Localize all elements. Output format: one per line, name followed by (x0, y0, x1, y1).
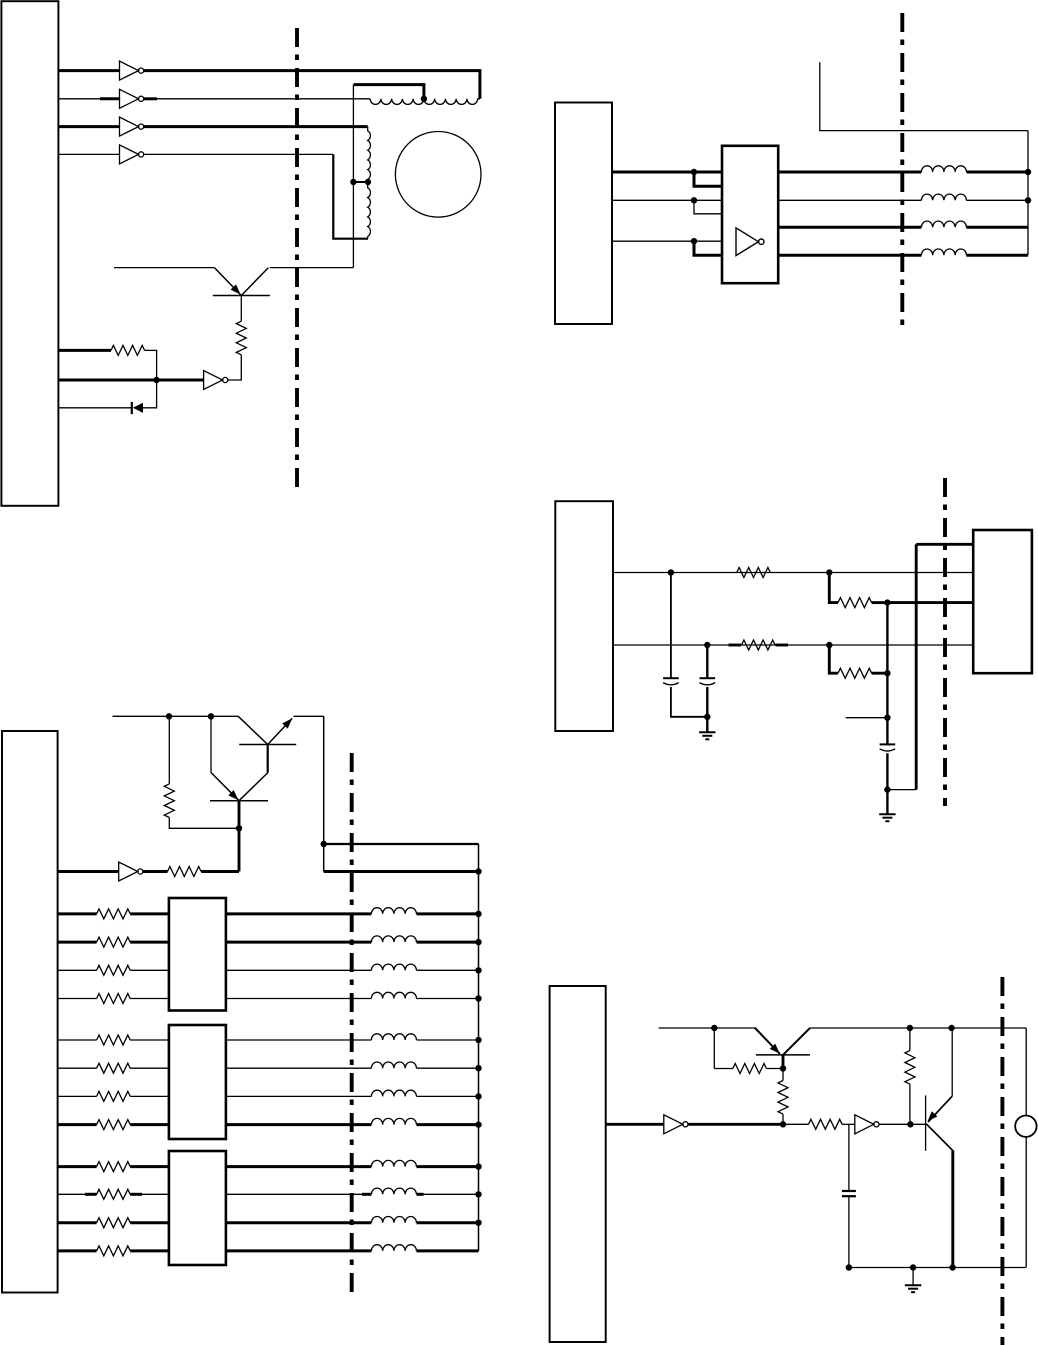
wire right bus vertical (1027, 131, 1029, 256)
resistor R6 (838, 668, 872, 678)
wire emitter bus vertical (323, 716, 325, 871)
inductor L11 (371, 964, 416, 970)
wire driver out row 10 (226, 1193, 372, 1195)
inverter A2 (120, 89, 139, 108)
inverter A4 (120, 145, 139, 164)
wire U3 out 4 to L8 (778, 254, 921, 257)
node ground junction right (884, 786, 890, 792)
wire driver out row 12 (226, 1249, 372, 1252)
driver IC U8 (169, 1025, 226, 1139)
resistor R18 (809, 1119, 843, 1129)
wire Q5 collector to bottom rail (951, 1151, 954, 1268)
inverter A7 (664, 1115, 683, 1134)
node R6 junction (884, 670, 890, 676)
wire U4 line 1 (613, 572, 973, 574)
resistor R7 (164, 784, 174, 818)
node bus row 10 (475, 1191, 481, 1197)
transistor Q3 emitter arrow (228, 790, 241, 803)
wire U6 to R10 row 2 (58, 941, 97, 944)
wire U6 to R14 row 6 (58, 1067, 97, 1069)
resistor R15 (733, 1064, 767, 1074)
resistor R16 (778, 1081, 788, 1115)
wire L16 to bus (417, 1123, 479, 1126)
transistor Q4 base bar (756, 1054, 810, 1056)
wire junction to R18 (783, 1123, 809, 1125)
resistor R1 (111, 345, 145, 355)
node coil tap L3-L4 (365, 179, 371, 185)
wire thick segment on A2 input (100, 97, 120, 100)
wire U4 line 2 (613, 644, 973, 646)
node Q5 base junction (907, 1121, 913, 1127)
wire U1 to diode D1 (59, 407, 132, 409)
wire D1 to junction (143, 380, 157, 408)
wire U3 out 2 to L6 (778, 199, 921, 201)
wire line 2 stub to U3 (694, 200, 722, 214)
inductor L6 (921, 194, 966, 200)
ground symbol right (879, 813, 895, 815)
node line 1 branch (691, 169, 697, 175)
node bus row 6 (475, 1065, 481, 1071)
driver IC U3 (722, 146, 778, 283)
node R3 output junction (826, 569, 832, 575)
wire coil tap link (353, 181, 368, 183)
wire U10 to A7 input (606, 1123, 664, 1126)
wire Q2 base to Q3 collector (267, 745, 269, 773)
node bus line 1 (1025, 169, 1031, 175)
resistor R15 (97, 1091, 131, 1101)
IC block U4 (555, 501, 613, 731)
transistor Q3 emitter diagonal (211, 773, 239, 801)
node Q4 base junction (780, 1065, 786, 1071)
transistor Q5 emitter diagonal (928, 1096, 952, 1122)
wire R4 node to U5 (887, 601, 973, 604)
wire R4 to node (872, 601, 888, 604)
resistor R17 (97, 1162, 131, 1172)
wire R10 to driver row 2 (130, 941, 169, 944)
wire U6 to R16 row 8 (58, 1123, 97, 1126)
motor M1 (circle) (395, 132, 481, 218)
wire driver out row 2 (226, 941, 372, 944)
transistor Q5 emitter arrow (925, 1111, 938, 1124)
inductor L7 (921, 221, 966, 227)
wire C3 to ground node (886, 753, 888, 789)
wire U6 to R11 row 3 (58, 969, 97, 971)
wire R17 to driver row 9 (130, 1165, 169, 1168)
inverter symbol in U3 (736, 228, 758, 256)
wire Q1 base down (240, 296, 242, 322)
node coil tap on common line (350, 179, 356, 185)
wire base junction to inverter line (238, 828, 241, 871)
resistor R9 (97, 909, 131, 919)
wire supply feed to bus (820, 62, 1028, 130)
node line 3 branch (691, 238, 697, 244)
wire L19 to bus (417, 1221, 479, 1224)
wire node to return vertical (887, 789, 916, 791)
node rail R15 tap (711, 1025, 717, 1031)
transistor Q5 base bar (925, 1095, 927, 1150)
wire R6 to node (872, 672, 888, 675)
wire U6 to R19 row 11 (58, 1221, 97, 1224)
wire U6 to R13 row 5 (58, 1039, 97, 1041)
wire C2 to ground node (706, 687, 708, 717)
resistor R14 (97, 1063, 131, 1073)
wire transistor Q1 collector stub (114, 267, 214, 269)
resistor R8 (168, 867, 202, 877)
wire C3 vertical (886, 603, 888, 745)
resistor R10 (97, 937, 131, 947)
node bus row 1 (475, 911, 481, 917)
resistor R11 (97, 965, 131, 975)
ground symbol left (699, 731, 715, 733)
node R4 junction (884, 599, 890, 605)
wire C4 top lead (848, 1124, 850, 1191)
wire Q4 base down (782, 1055, 785, 1069)
node bus row 7 (475, 1093, 481, 1099)
inverter A1 (120, 61, 139, 80)
boundary dash-dot line 5 (1000, 977, 1004, 1345)
wire thick segment line 2 b (776, 644, 789, 647)
capacitor C4 plate 2 (842, 1195, 856, 1197)
node bus row 9 (475, 1163, 481, 1169)
transistor Q1 emitter arrow (231, 284, 244, 297)
boundary dash-dot line 2 (900, 13, 904, 325)
node R5 output junction (826, 642, 832, 648)
wire line 3 stub to U3 (694, 241, 722, 255)
boundary dash-dot line 1 (295, 28, 299, 488)
inductor L10 (371, 936, 416, 942)
capacitor C2 (700, 677, 716, 679)
wire R15 vertical (713, 1028, 715, 1069)
inverter A8 (855, 1115, 874, 1134)
inductor L20 (371, 1245, 416, 1251)
wire L18 to bus (417, 1193, 479, 1195)
resistor R2 (Q1 base) (236, 321, 246, 355)
wire R11 to driver row 3 (130, 969, 169, 971)
wire driver out row 7 (226, 1095, 372, 1097)
wire U1 to A2 input (59, 98, 120, 100)
diode D1 body (133, 403, 143, 413)
wire return vertical (915, 544, 918, 789)
node coil center tap top (421, 96, 427, 102)
resistor R19 (97, 1218, 131, 1228)
node ground junction left (704, 714, 710, 720)
wire driver out row 8 (226, 1123, 372, 1126)
wire driver out row 1 (226, 912, 372, 915)
wire U3 out 3 to L7 (778, 226, 921, 229)
node bus row 5 (475, 1037, 481, 1043)
wire A8 output to Q5 base (879, 1123, 926, 1125)
wire A1 output to motor coil top (143, 71, 480, 99)
wire U6 to R20 row 12 (58, 1249, 97, 1252)
transistor Q3 collector diagonal (239, 773, 268, 801)
inverter A3 (120, 117, 139, 136)
node bus row 3 (475, 967, 481, 973)
wire A7 output to junction (688, 1123, 783, 1126)
wire A4 output to coil L4 bottom (143, 153, 333, 155)
resistor R4 (838, 598, 872, 608)
transistor Q4 emitter diagonal (755, 1028, 780, 1054)
wire ground stem right (886, 790, 888, 814)
wire center-tap feed (353, 85, 424, 99)
inductor L18 (371, 1188, 416, 1194)
wire thick segment row 10 d (417, 1193, 424, 1196)
wire L14 to bus (417, 1067, 479, 1069)
wire L9 to bus (417, 912, 479, 915)
node rail R17 tap (907, 1025, 913, 1031)
wire L17 to bus (417, 1165, 479, 1168)
wire ground stem (912, 1268, 914, 1285)
wire corner to coil L4 (333, 154, 368, 238)
wire R2 to inverter A5 output (228, 355, 242, 380)
inductor L8 (921, 249, 966, 255)
resistor R5 (742, 640, 776, 650)
wire U2 line 3 to U3 (612, 240, 722, 242)
IC block U1 (top-left controller) (1, 1, 58, 506)
inductor L17 (371, 1160, 416, 1166)
motor coil L1 (horizontal) (370, 99, 424, 105)
inductor L16 (371, 1118, 416, 1124)
wire R16 connectors (782, 1069, 784, 1125)
wire U1 to R1 (59, 349, 112, 352)
resistor R13 (97, 1035, 131, 1045)
node bus row 11 (475, 1220, 481, 1226)
ground symbol (905, 1284, 921, 1286)
wire thick segment on A2 output (143, 97, 157, 100)
wire transistor Q1 to common line (270, 267, 354, 269)
wire U2 line 1 to U3 (612, 171, 722, 174)
wire U1 to A1 input (59, 69, 120, 72)
inductor L13 (371, 1034, 416, 1040)
wire R1 to junction (145, 350, 157, 380)
wire C4 bottom lead (848, 1196, 850, 1267)
wire L10 to bus (417, 941, 479, 944)
node rail Q5 tap (948, 1025, 954, 1031)
capacitor C3 (880, 743, 896, 745)
driver IC U7 (169, 898, 226, 1011)
transistor Q3 base bar (210, 800, 268, 802)
resistor R18 (97, 1189, 131, 1199)
wire C2 lead (706, 645, 708, 678)
transistor Q4 emitter arrow (770, 1044, 783, 1057)
wire lamp top lead (1025, 1028, 1027, 1116)
node Q3 base junction (236, 825, 242, 831)
boundary dash-dot line 4 (350, 753, 354, 1298)
wire R20 to driver row 12 (130, 1249, 169, 1252)
wire R17 top lead (909, 1028, 911, 1051)
wire U6 to R12 row 4 (58, 998, 97, 1000)
capacitor C1 (663, 677, 679, 679)
wire Q3 base down (238, 801, 241, 829)
wire U1 to A4 input (59, 153, 120, 155)
wire R15 to driver row 7 (130, 1095, 169, 1097)
wire supply rail upper (324, 843, 479, 845)
wire common vertical to transistor (352, 85, 354, 268)
node C1 tap (668, 569, 674, 575)
wire R9 to driver row 1 (130, 912, 169, 915)
wire line 1 stub to U3 (694, 172, 722, 186)
wire supply rail top right (810, 1027, 1026, 1029)
node right bus top (475, 868, 481, 874)
wire L6 to bus (966, 199, 1028, 201)
transistor Q1 emitter diagonal (214, 268, 241, 296)
wire U6 to R17 row 9 (58, 1165, 97, 1168)
node ground tap (910, 1264, 916, 1270)
resistor R17 (905, 1051, 915, 1085)
wire Q2 emitter to bus (294, 715, 324, 717)
inductor L19 (371, 1216, 416, 1222)
motor coil L3 (vertical) (368, 127, 371, 182)
wire U6 to R9 row 1 (58, 912, 97, 915)
node collector bottom (949, 1264, 955, 1270)
node main line junction (780, 1121, 786, 1127)
node stub junction (884, 715, 890, 721)
wire R14 to driver row 6 (130, 1067, 169, 1069)
resistor R20 (97, 1246, 131, 1256)
wire driver out row 9 (226, 1165, 372, 1168)
inverter A6 (119, 862, 138, 881)
node A5 input junction (153, 377, 159, 383)
inductor L14 (371, 1062, 416, 1068)
wire R16 to driver row 8 (130, 1123, 169, 1126)
wire U6 to R18 row 10 (58, 1193, 97, 1195)
wire right bus vertical (478, 844, 480, 1251)
transistor Q4 collector diagonal (783, 1028, 810, 1055)
wire top rail (113, 715, 239, 717)
wire supply rail top left (659, 1027, 757, 1029)
wire L5 to bus (966, 171, 1028, 174)
wire R15 to base node (766, 1068, 783, 1070)
wire bottom rail (849, 1267, 1026, 1269)
resistor R3 (737, 568, 771, 578)
wire A2 output to coil L1 (143, 98, 370, 100)
wire R17 bottom lead (909, 1084, 911, 1124)
wire R6 stub (829, 645, 838, 673)
wire R7 vertical top (168, 716, 170, 784)
wire U1 to A5 input (59, 379, 204, 382)
wire U6 to A6 input (58, 870, 119, 873)
IC block U6 (2, 731, 58, 1293)
capacitor C4 plate 1 (842, 1190, 856, 1192)
IC block U2 (555, 103, 612, 325)
wire R18 to driver row 10 (130, 1193, 169, 1195)
IC block U5 (973, 530, 1032, 673)
wire C1 lead (670, 573, 672, 679)
wire driver out row 5 (226, 1039, 372, 1041)
wire supply rail lower (324, 870, 479, 873)
node bus line 2 (1025, 197, 1031, 203)
node bottom rail left (846, 1264, 852, 1270)
transistor Q5 collector diagonal (926, 1124, 953, 1151)
wire A6 output to R8 (143, 870, 168, 873)
node bus row 4 (475, 995, 481, 1001)
node line 2 branch (691, 197, 697, 203)
wire L20 to bus (417, 1249, 479, 1252)
resistor R12 (97, 994, 131, 1004)
wire L11 to bus (417, 969, 479, 971)
wire L12 to bus (417, 998, 479, 1000)
wire driver out row 6 (226, 1067, 372, 1069)
transistor Q1 collector diagonal (241, 268, 268, 296)
IC block U10 (550, 986, 606, 1342)
boundary dash-dot line 3 (943, 478, 947, 806)
diode D1 cathode bar (131, 402, 133, 414)
resistor R16 (97, 1120, 131, 1130)
wire R15 lead (714, 1068, 733, 1070)
wire U1 to A3 input (59, 125, 120, 128)
wire U6 to R15 row 7 (58, 1095, 97, 1097)
node C2 tap (704, 642, 710, 648)
wire U3 out 1 to L5 (778, 171, 921, 174)
inductor L9 (371, 908, 416, 914)
wire thick segment row 10 a (85, 1193, 97, 1196)
driver IC U9 (169, 1151, 226, 1265)
wire L7 to bus (966, 226, 1028, 229)
wire L13 to bus (417, 1039, 479, 1041)
inductor L5 (921, 166, 966, 172)
node bus row 8 (475, 1121, 481, 1127)
wire R18 to A8 input (842, 1123, 855, 1125)
wire ground stem left (706, 717, 708, 732)
wire R13 to driver row 5 (130, 1039, 169, 1041)
node bus row 2 (475, 939, 481, 945)
wire A3 output to coil L3 (143, 125, 368, 128)
node Q2 collector tap (208, 713, 214, 719)
node emitter bus tap (321, 841, 327, 847)
node R7 top (166, 713, 172, 719)
inductor L15 (371, 1090, 416, 1096)
wire R8 to base line (201, 870, 239, 873)
inverter A5 (204, 371, 223, 390)
wire driver out row 4 (226, 998, 372, 1000)
lamp LP1 (circle) (1015, 1116, 1036, 1137)
wire Q5 emitter to rail (951, 1028, 953, 1096)
wire return top to U5 (916, 543, 973, 546)
wire driver out row 3 (226, 969, 372, 971)
transistor Q2 emitter diagonal (268, 718, 293, 744)
motor coil L2 (horizontal) (424, 99, 480, 105)
wire R3 stub (829, 573, 838, 603)
transistor Q2 base bar (239, 744, 296, 746)
transistor Q2 collector diagonal (238, 716, 268, 744)
wire U2 line 2 to U3 (612, 199, 722, 201)
transistor Q2 emitter arrow (282, 716, 295, 729)
wire R12 to driver row 4 (130, 998, 169, 1000)
wire driver out row 11 (226, 1221, 372, 1224)
wire thick segment line 2 a (729, 644, 742, 647)
wire thick segment row 10 c (362, 1193, 371, 1196)
inductor L12 (371, 992, 416, 998)
wire L15 to bus (417, 1095, 479, 1097)
wire test stub (846, 717, 888, 719)
wire R7 to base junction (169, 818, 239, 829)
wire C1 to ground rail (671, 687, 707, 717)
wire lamp bottom lead (1025, 1137, 1027, 1268)
wire L8 to bus (966, 254, 1028, 257)
wire R19 to driver row 11 (130, 1221, 169, 1224)
wire thick segment row 10 b (130, 1193, 142, 1196)
transistor Q1 base bar (213, 295, 270, 297)
wire Q3 emitter vertical (210, 716, 212, 772)
motor coil L4 (vertical) (368, 182, 371, 239)
